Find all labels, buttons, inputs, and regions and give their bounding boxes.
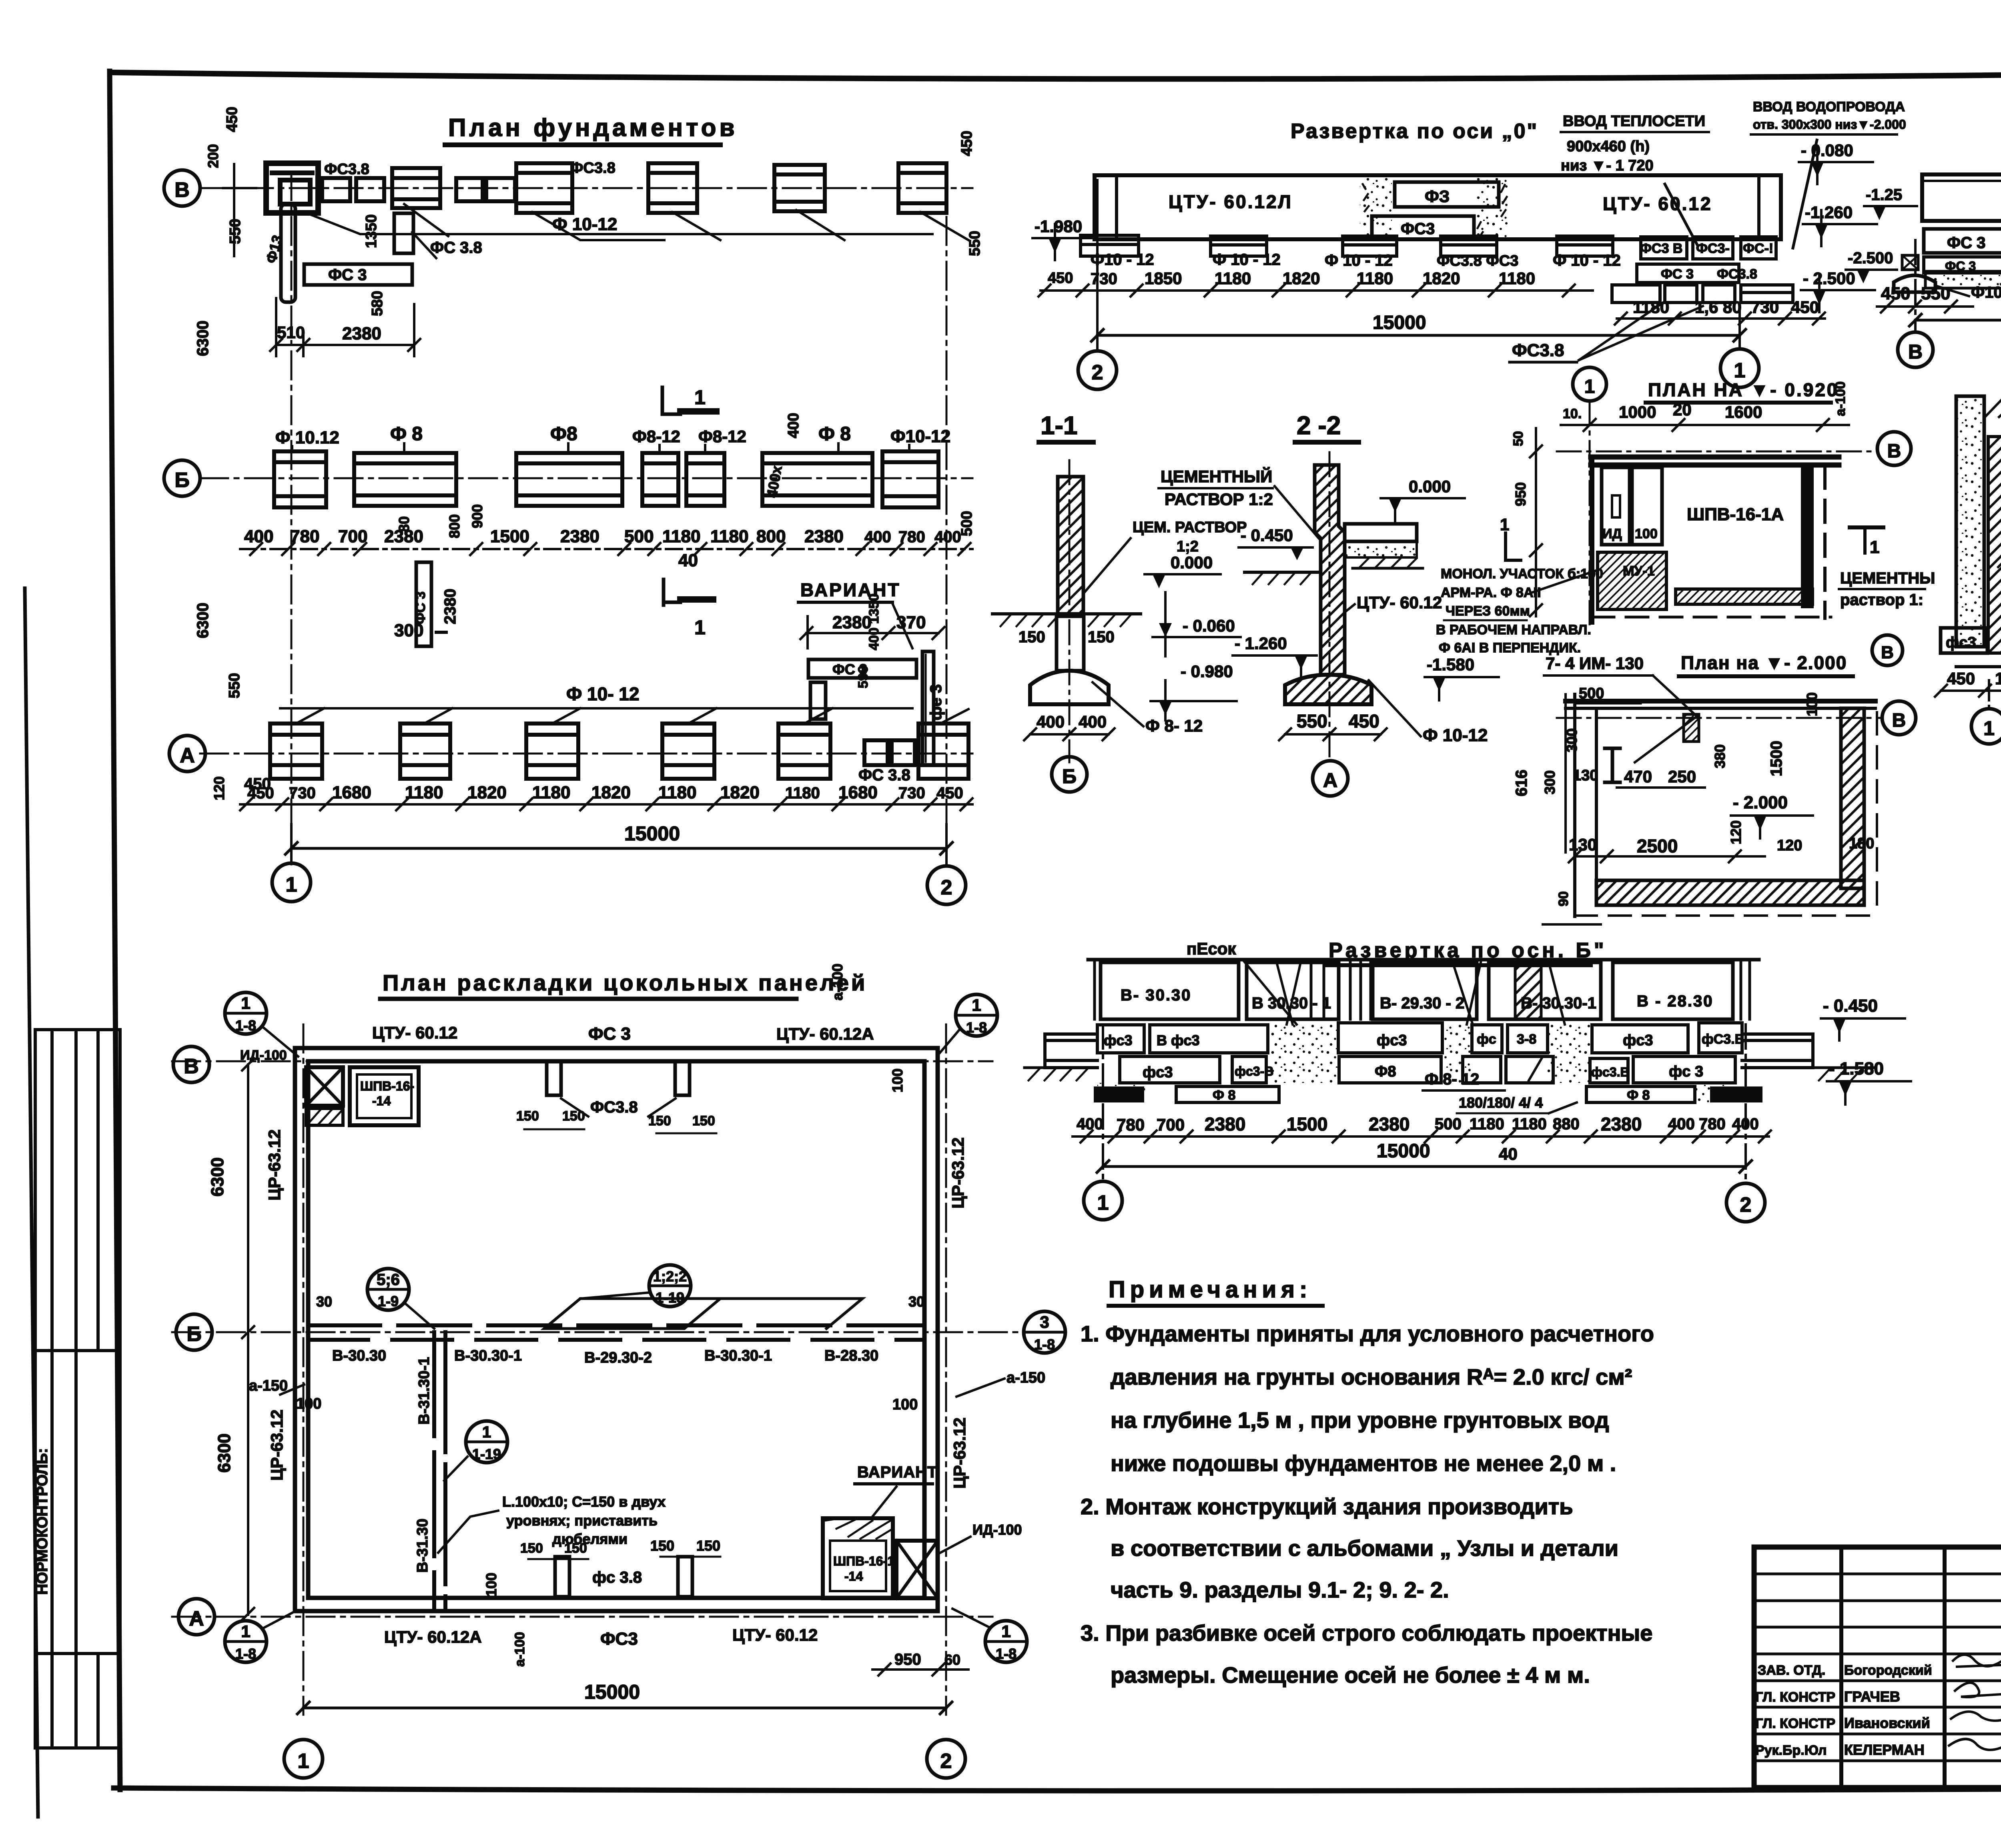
axis line 1 vertical — [291, 172, 293, 864]
svg-text:150: 150 — [648, 1113, 671, 1128]
svg-text:1820: 1820 — [1423, 269, 1460, 288]
block rows below — [1097, 1023, 1742, 1083]
svg-text:План раскладки цокольных панел: План раскладки цокольных панелей — [383, 970, 867, 995]
svg-text:давления на грунты основани: давления на грунты основания Rᴬ= 2.0 кгс… — [1111, 1364, 1632, 1389]
svg-text:1: 1 — [482, 1423, 491, 1441]
sheet edge left — [25, 588, 38, 1817]
svg-text:ФС3.8: ФС3.8 — [324, 161, 369, 178]
svg-text:130: 130 — [1569, 835, 1597, 854]
svg-text:В-30.30-1: В-30.30-1 — [454, 1347, 522, 1364]
axis circles 1,2 bottom — [284, 1740, 323, 1778]
svg-text:А: А — [180, 744, 195, 767]
detail circle 1/1-8 bottom-right — [985, 1621, 1027, 1662]
svg-text:В-28.30: В-28.30 — [824, 1347, 878, 1364]
svg-text:Ф 10 - 12: Ф 10 - 12 — [1553, 252, 1621, 269]
svg-text:1000: 1000 — [1619, 403, 1656, 421]
svg-text:6300: 6300 — [215, 1433, 234, 1473]
svg-text:1180: 1180 — [1633, 298, 1669, 317]
svg-text:Ф10 - 12: Ф10 - 12 — [1971, 284, 2001, 301]
svg-text:40: 40 — [1499, 1144, 1518, 1163]
svg-text:100: 100 — [296, 1395, 321, 1412]
svg-text:В: В — [1881, 643, 1894, 662]
wall 1-1 hatched — [1058, 477, 1083, 614]
svg-text:1. Фундаменты приняты для у: 1. Фундаменты приняты для условного расч… — [1081, 1321, 1654, 1346]
dashed outlines — [1876, 712, 1878, 912]
svg-text:1180: 1180 — [1512, 1115, 1547, 1133]
svg-text:30: 30 — [316, 1293, 332, 1310]
svg-text:Ф 8- 12: Ф 8- 12 — [1425, 1070, 1479, 1088]
svg-text:Ф10-12: Ф10-12 — [890, 427, 950, 446]
svg-text:500: 500 — [1435, 1115, 1462, 1133]
svg-text:2: 2 — [941, 876, 952, 899]
svg-text:900: 900 — [469, 504, 485, 528]
detail circle 1;2;2/1-19 — [649, 1265, 691, 1307]
svg-text:Ф 8: Ф 8 — [390, 423, 423, 445]
bottom wall hatched — [1596, 880, 1864, 905]
ShPV box top-left — [350, 1067, 419, 1125]
svg-text:отв. 300х300 низ▼-2.000: отв. 300х300 низ▼-2.000 — [1753, 117, 1906, 132]
svg-text:20: 20 — [1673, 400, 1692, 419]
svg-text:- 1.260: - 1.260 — [1235, 634, 1287, 653]
svg-text:150: 150 — [564, 1541, 587, 1556]
axis circle 3/1-8 right — [1024, 1311, 1065, 1353]
svg-text:фс3: фс3 — [1946, 634, 1976, 651]
SECTION G: Razvertka po osn. B (center) — [1025, 939, 1911, 1222]
frame bottom — [114, 1786, 2001, 1791]
svg-text:Ф 10.12: Ф 10.12 — [275, 428, 339, 447]
svg-text:1180: 1180 — [532, 783, 570, 802]
svg-text:Ф10 - 12: Ф10 - 12 — [1091, 251, 1154, 269]
svg-text:ФЗ: ФЗ — [1425, 187, 1450, 206]
svg-text:А: А — [189, 1607, 204, 1630]
svg-text:300: 300 — [1542, 770, 1558, 794]
svg-text:1-8: 1-8 — [966, 1019, 987, 1036]
detail circle 5;6/1-9 — [367, 1269, 409, 1310]
svg-text:-1.260: -1.260 — [1805, 203, 1853, 222]
svg-text:- 0.080: - 0.080 — [1801, 141, 1853, 160]
svg-text:1180: 1180 — [1215, 269, 1251, 288]
svg-text:780: 780 — [1699, 1115, 1726, 1133]
svg-text:1: 1 — [1734, 359, 1746, 382]
svg-text:800: 800 — [446, 514, 463, 538]
svg-text:1500: 1500 — [1287, 1114, 1327, 1134]
svg-text:180: 180 — [1849, 835, 1874, 852]
svg-text:Ф 10 - 12: Ф 10 - 12 — [1213, 251, 1281, 269]
left wall — [1590, 457, 1594, 622]
svg-text:В-29.30-2: В-29.30-2 — [584, 1349, 652, 1366]
svg-text:550: 550 — [226, 673, 243, 698]
axis circle B — [1052, 757, 1087, 792]
row B blocks — [274, 451, 938, 507]
svg-text:180/180/ 4/ 4: 180/180/ 4/ 4 — [1459, 1094, 1543, 1111]
small hatched block top — [1684, 714, 1699, 742]
svg-text:1: 1 — [972, 996, 981, 1014]
svg-text:1: 1 — [694, 616, 706, 639]
svg-text:ФС 3: ФС 3 — [1947, 234, 1985, 252]
svg-text:фс3: фс3 — [1623, 1032, 1653, 1049]
svg-text:уровнях; приставить: уровнях; приставить — [506, 1512, 658, 1529]
svg-text:а-100: а-100 — [829, 964, 846, 1000]
svg-text:1: 1 — [1870, 537, 1879, 557]
svg-text:400: 400 — [244, 527, 273, 546]
svg-text:550: 550 — [1297, 711, 1327, 732]
svg-text:2380: 2380 — [441, 589, 459, 624]
svg-text:1180: 1180 — [662, 527, 700, 546]
svg-text:1: 1 — [1500, 515, 1509, 534]
svg-text:фс3: фс3 — [1377, 1032, 1407, 1049]
svg-text:50: 50 — [1511, 431, 1526, 446]
svg-text:ФС3-: ФС3- — [1696, 241, 1730, 256]
svg-text:ФС3.8 ФС3: ФС3.8 ФС3 — [1437, 253, 1518, 269]
svg-text:МОНОЛ. УЧАСТОК б:100: МОНОЛ. УЧАСТОК б:100 — [1441, 566, 1603, 581]
svg-text:100: 100 — [1635, 526, 1658, 541]
top-left X box — [306, 1067, 343, 1106]
detail circle 1/1-8 top-left — [225, 992, 267, 1034]
svg-text:2380: 2380 — [1369, 1114, 1410, 1134]
svg-text:А: А — [1323, 769, 1337, 792]
svg-text:2380: 2380 — [560, 527, 599, 546]
svg-text:1: 1 — [298, 1750, 309, 1773]
section flag 1 left of plan — [1506, 533, 1521, 560]
svg-text:фс3: фс3 — [1143, 1064, 1173, 1081]
vertical dim line left — [233, 164, 235, 256]
svg-text:фс3.В: фс3.В — [1591, 1065, 1630, 1079]
svg-text:В: В — [1908, 341, 1923, 363]
svg-text:ФС3.8: ФС3.8 — [570, 160, 616, 176]
axis circles — [1078, 351, 1117, 389]
svg-text:300: 300 — [394, 621, 423, 640]
SECTION B: Plan raskladki tsokolnykh panelei (bottom-left) — [172, 964, 1065, 1778]
svg-text:дюбелями: дюбелями — [552, 1531, 628, 1547]
svg-text:150: 150 — [692, 1113, 715, 1128]
svg-text:ЦР-63.12: ЦР-63.12 — [950, 1417, 969, 1489]
svg-text:700: 700 — [1157, 1115, 1185, 1134]
svg-text:ГРАЧЕВ: ГРАЧЕВ — [1844, 1688, 1900, 1705]
svg-text:1-8: 1-8 — [996, 1646, 1017, 1662]
svg-text:Ф8-12: Ф8-12 — [698, 427, 746, 446]
svg-text:1: 1 — [1001, 1622, 1011, 1641]
svg-text:ЦР-63.12: ЦР-63.12 — [265, 1129, 284, 1201]
detail circle 1/1-8 bottom-left — [225, 1621, 267, 1662]
svg-text:Ф8: Ф8 — [550, 423, 577, 445]
svg-text:ВВОД ТЕПЛОСЕТИ: ВВОД ТЕПЛОСЕТИ — [1563, 113, 1705, 130]
svg-text:- 0.980: - 0.980 — [1181, 662, 1233, 681]
svg-text:ЧЕРЕЗ 60мм: ЧЕРЕЗ 60мм — [1446, 603, 1530, 619]
axis circles — [1084, 1181, 1122, 1220]
svg-text:1: 1 — [241, 994, 250, 1012]
foundation pad 2-2 — [1285, 675, 1371, 704]
top band outline — [1088, 958, 1759, 962]
main band — [1095, 175, 1781, 239]
section flag 1 lower — [664, 579, 680, 605]
foundation pad 1-1 — [1030, 671, 1109, 704]
svg-text:0.000: 0.000 — [1171, 553, 1213, 572]
axis circle V — [164, 170, 200, 206]
T1 mark right — [1850, 525, 1883, 529]
svg-text:1;2: 1;2 — [1177, 538, 1199, 555]
svg-text:130: 130 — [1573, 767, 1598, 784]
svg-text:-1.580: -1.580 — [1427, 655, 1474, 674]
svg-text:а-150: а-150 — [1007, 1369, 1045, 1386]
svg-text:730: 730 — [898, 784, 925, 802]
svg-text:15000: 15000 — [584, 1681, 640, 1703]
svg-text:ЦТУ- 60.12А: ЦТУ- 60.12А — [384, 1628, 482, 1646]
svg-text:2: 2 — [940, 1750, 952, 1773]
top wall — [1591, 455, 1839, 460]
dim line under B — [240, 548, 972, 550]
svg-text:1: 1 — [1584, 376, 1595, 397]
left protrusion I-beam — [1045, 1034, 1097, 1068]
svg-text:150: 150 — [1088, 628, 1115, 646]
svg-text:120: 120 — [1777, 837, 1802, 854]
svg-text:2: 2 — [1092, 361, 1103, 384]
svg-text:300: 300 — [1564, 728, 1580, 752]
SECTION G2: Primechaniya notes — [1081, 1277, 1654, 1688]
svg-text:200: 200 — [205, 144, 221, 168]
svg-text:а-100: а-100 — [512, 1632, 527, 1667]
svg-text:- 2.000: - 2.000 — [1733, 793, 1788, 812]
frame left — [110, 71, 120, 1790]
outer walls double line — [295, 1048, 938, 1611]
middle wall along B axis — [308, 1323, 924, 1327]
svg-text:5;6: 5;6 — [377, 1271, 400, 1289]
svg-text:ВАРИАНТ: ВАРИАНТ — [857, 1463, 937, 1481]
svg-text:на глубине 1,5 м , при уро: на глубине 1,5 м , при уровне грунтовых … — [1111, 1407, 1609, 1433]
svg-text:ШПВ-16-1: ШПВ-16-1 — [833, 1554, 894, 1568]
svg-text:10.: 10. — [1563, 406, 1582, 421]
svg-text:В: В — [1887, 441, 1901, 462]
signatures squiggles — [1953, 1655, 2001, 1667]
svg-text:ИД-100: ИД-100 — [972, 1521, 1022, 1538]
svg-text:400: 400 — [1079, 712, 1107, 731]
svg-text:В- 30.30-1: В- 30.30-1 — [1521, 994, 1596, 1012]
svg-text:Ф 8: Ф 8 — [1627, 1088, 1650, 1103]
neck block — [1057, 616, 1084, 671]
svg-text:2380: 2380 — [342, 324, 381, 343]
svg-text:ПЛАН НА ▼- 0.920: ПЛАН НА ▼- 0.920 — [1648, 379, 1839, 400]
svg-text:ниже подошвы фундаментов не: ниже подошвы фундаментов не менее 2,0 м … — [1111, 1451, 1616, 1476]
axis A line — [172, 1616, 992, 1618]
svg-text:В: В — [174, 178, 190, 202]
svg-text:590: 590 — [856, 665, 871, 688]
FS3 horizontal bar — [304, 264, 412, 285]
svg-text:ЦТУ- 60.12А: ЦТУ- 60.12А — [776, 1024, 874, 1043]
svg-text:1;2;2: 1;2;2 — [653, 1268, 687, 1285]
svg-text:ФС 3.8: ФС 3.8 — [430, 239, 482, 257]
svg-text:1600: 1600 — [1725, 403, 1762, 421]
small blocks row under band — [1081, 235, 1613, 256]
svg-text:ЦТУ- 60.12Л: ЦТУ- 60.12Л — [1169, 191, 1293, 212]
svg-text:400: 400 — [1077, 1115, 1103, 1133]
svg-text:100: 100 — [889, 1068, 906, 1092]
SECTION E: Plan na -0.920 — [1436, 367, 1935, 655]
svg-text:950: 950 — [1512, 482, 1529, 506]
svg-text:Богородский: Богородский — [1844, 1663, 1932, 1678]
svg-text:1500: 1500 — [1768, 741, 1785, 776]
right protrusion I-beam — [1742, 1034, 1813, 1068]
svg-text:-14: -14 — [844, 1569, 863, 1583]
right wall hatched — [1841, 708, 1864, 888]
row V foundation blocks — [266, 163, 946, 213]
svg-text:ЦР-63.12: ЦР-63.12 — [948, 1137, 967, 1209]
svg-text:ФС3 В: ФС3 В — [1640, 241, 1682, 256]
svg-text:ФС3.8: ФС3.8 — [1512, 341, 1564, 360]
svg-text:ФС-!: ФС-! — [1743, 241, 1773, 256]
svg-text:450: 450 — [224, 107, 241, 132]
svg-text:40: 40 — [678, 551, 698, 570]
svg-text:1820: 1820 — [720, 783, 760, 802]
svg-text:470: 470 — [1624, 767, 1652, 786]
bottom hatched strip — [1676, 589, 1813, 604]
svg-text:100: 100 — [1804, 692, 1820, 716]
svg-text:ЗАВ. ОТД.: ЗАВ. ОТД. — [1758, 1663, 1825, 1678]
svg-text:150: 150 — [696, 1537, 720, 1554]
dashed outline bottom — [1592, 616, 1831, 619]
svg-text:ГЛ. КОНСТР: ГЛ. КОНСТР — [1755, 1716, 1835, 1731]
svg-text:В 30.30 - 1: В 30.30 - 1 — [1252, 994, 1331, 1012]
axis V line + circle — [1557, 451, 1877, 453]
svg-text:Ф 8: Ф 8 — [1213, 1088, 1235, 1103]
small vertical block — [394, 213, 413, 253]
svg-text:1-8: 1-8 — [1034, 1336, 1055, 1353]
svg-text:1: 1 — [694, 386, 706, 409]
axis circle 1 — [272, 863, 311, 902]
leader line row V — [304, 212, 932, 234]
axis circle B — [176, 1314, 212, 1350]
bottom wall tick blocks — [555, 1557, 569, 1597]
floor slab right — [1345, 524, 1417, 541]
svg-text:1: 1 — [241, 1622, 250, 1641]
svg-text:Ф 10- 12: Ф 10- 12 — [566, 683, 639, 704]
leader Ф10-12 row A — [280, 707, 912, 710]
svg-text:фс 3.8: фс 3.8 — [592, 1569, 642, 1586]
svg-text:1500: 1500 — [490, 527, 529, 546]
SECTION K: title block — [1754, 1547, 2001, 1789]
svg-text:Ф 8: Ф 8 — [818, 423, 851, 445]
svg-text:15000: 15000 — [1377, 1140, 1430, 1162]
svg-text:2. Монтаж конструкций здани: 2. Монтаж конструкций здания производить — [1081, 1494, 1573, 1519]
svg-text:580: 580 — [369, 291, 386, 316]
svg-text:ВАРИАНТ: ВАРИАНТ — [800, 579, 900, 600]
svg-text:Ф 6АI В ПЕРПЕНДИК.: Ф 6АI В ПЕРПЕНДИК. — [1439, 640, 1581, 655]
svg-text:- 0.450: - 0.450 — [1241, 526, 1293, 545]
svg-text:низ ▼- 1 720: низ ▼- 1 720 — [1561, 157, 1654, 174]
interior vertical wall — [432, 1332, 436, 1611]
parallelogram callouts — [544, 1299, 720, 1329]
svg-text:В: В — [184, 1055, 199, 1078]
svg-text:ФС 3: ФС 3 — [413, 591, 428, 624]
panels — [1101, 962, 1733, 1019]
svg-text:380: 380 — [1712, 744, 1728, 768]
F3 box middle — [1360, 177, 1392, 239]
svg-text:1: 1 — [1983, 717, 1995, 740]
svg-text:фс: фс — [1477, 1032, 1496, 1047]
svg-text:2380: 2380 — [804, 527, 844, 546]
svg-text:В РАБОЧЕМ НАПРАВЛ.: В РАБОЧЕМ НАПРАВЛ. — [1436, 622, 1591, 637]
svg-text:2380: 2380 — [832, 613, 872, 632]
inner wall hatched — [1988, 437, 2001, 653]
svg-text:ШПВ-16-: ШПВ-16- — [360, 1079, 414, 1093]
svg-text:ЦТУ- 60.12: ЦТУ- 60.12 — [732, 1626, 818, 1644]
svg-text:1-1: 1-1 — [1041, 411, 1078, 440]
svg-text:1820: 1820 — [1283, 269, 1320, 288]
svg-text:3-8: 3-8 — [1517, 1032, 1536, 1047]
axis circles — [1898, 332, 1933, 367]
svg-text:- 2.500: - 2.500 — [1803, 269, 1855, 288]
svg-text:3. При разбивке осей строг: 3. При разбивке осей строго соблюдать пр… — [1081, 1620, 1652, 1646]
svg-text:ФС 3: ФС 3 — [328, 266, 367, 284]
svg-text:6300: 6300 — [194, 321, 212, 356]
svg-text:60: 60 — [944, 1652, 960, 1668]
axis 2 line — [945, 1024, 947, 1715]
svg-text:1180: 1180 — [405, 783, 443, 802]
svg-text:размеры. Смещение осей не б: размеры. Смещение осей не более ± 4 м м. — [1111, 1662, 1590, 1688]
svg-text:В-30.30: В-30.30 — [332, 1347, 386, 1364]
svg-text:НОРМОКОНТРОЛЬ:: НОРМОКОНТРОЛЬ: — [34, 1448, 51, 1595]
axis V line — [172, 1060, 992, 1062]
axis B line — [172, 1331, 1049, 1333]
svg-text:В- 29.30 - 2: В- 29.30 - 2 — [1380, 994, 1464, 1012]
axis circle 2 — [927, 866, 966, 904]
interior left vertical — [1595, 708, 1598, 880]
svg-text:6300: 6300 — [208, 1157, 227, 1197]
wall 2-2 — [1315, 465, 1345, 675]
svg-text:900х460 (h): 900х460 (h) — [1567, 138, 1650, 155]
axis circle A — [1313, 761, 1348, 796]
svg-text:ФС 3: ФС 3 — [1661, 267, 1694, 282]
svg-text:ЦЕМЕНТНЫЙ: ЦЕМЕНТНЫЙ — [1161, 467, 1272, 486]
svg-text:616: 616 — [1513, 770, 1530, 796]
svg-text:ЦЕМ. РАСТВОР: ЦЕМ. РАСТВОР — [1133, 519, 1247, 536]
svg-text:700: 700 — [338, 527, 367, 546]
svg-text:Ивановский: Ивановский — [1844, 1715, 1930, 1731]
right wall thick — [1801, 464, 1814, 608]
svg-text:Ф 10 - 12: Ф 10 - 12 — [1325, 252, 1393, 269]
svg-text:ЦТУ- 60.12: ЦТУ- 60.12 — [1357, 593, 1442, 612]
svg-text:1820: 1820 — [467, 783, 507, 802]
svg-text:1180: 1180 — [710, 527, 748, 546]
svg-text:450: 450 — [1791, 298, 1819, 317]
svg-text:120: 120 — [1728, 820, 1744, 844]
right cluster of blocks — [1612, 237, 1793, 303]
svg-text:150: 150 — [650, 1537, 674, 1554]
svg-text:в соответствии с альбомами: в соответствии с альбомами „ Узлы и дета… — [1111, 1535, 1618, 1561]
svg-text:Ф8-12: Ф8-12 — [632, 427, 680, 446]
row A blocks — [270, 724, 968, 779]
svg-text:30: 30 — [908, 1293, 924, 1310]
ground lines — [1245, 571, 1321, 574]
svg-text:ФС3: ФС3 — [1401, 220, 1435, 238]
svg-text:ФС3.8: ФС3.8 — [1717, 267, 1757, 282]
SECTION F: Plan na -2.000 — [1513, 652, 1916, 924]
svg-text:500: 500 — [1579, 685, 1604, 702]
svg-text:Ф 10-12: Ф 10-12 — [1423, 726, 1488, 745]
SECTION A: Plan fundamentov (top-left) — [164, 107, 983, 904]
svg-text:400: 400 — [934, 528, 961, 546]
svg-text:Ф 10-12: Ф 10-12 — [552, 214, 617, 234]
svg-text:фс3-В: фс3-В — [1235, 1064, 1273, 1078]
svg-text:1: 1 — [1097, 1191, 1109, 1215]
leader marks on B labels — [292, 443, 909, 453]
svg-text:250: 250 — [1668, 767, 1696, 786]
svg-text:1180: 1180 — [785, 784, 820, 802]
vertical wall bar below V — [281, 204, 295, 302]
svg-text:0.000: 0.000 — [1409, 477, 1451, 496]
svg-text:ЦТУ- 60.12: ЦТУ- 60.12 — [1603, 193, 1712, 214]
svg-text:Ф 8- 12: Ф 8- 12 — [1145, 716, 1203, 735]
svg-text:- 1.580: - 1.580 — [1829, 1059, 1884, 1078]
svg-text:1-19: 1-19 — [472, 1446, 501, 1462]
